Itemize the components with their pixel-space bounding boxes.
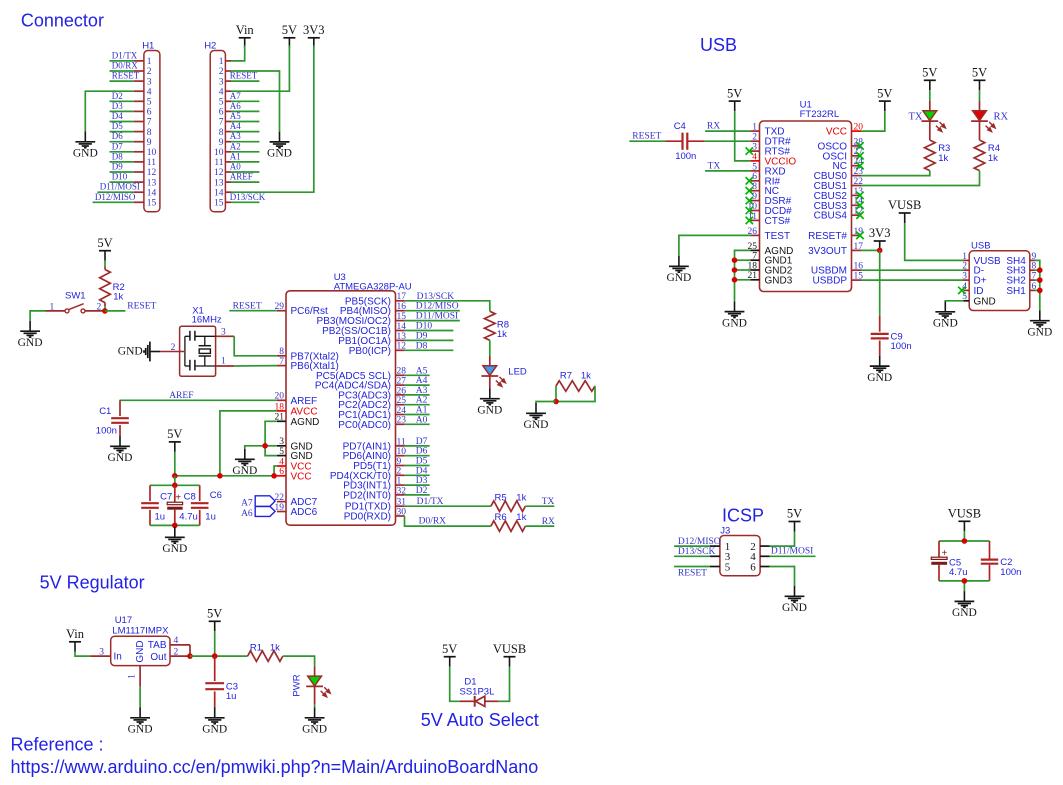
svg-text:GND: GND	[477, 404, 502, 416]
svg-text:H1: H1	[142, 41, 154, 52]
power 5V at U1 VCC	[877, 86, 892, 111]
wire U1 AGND GND1 GND2 GND3 to ground	[735, 250, 751, 301]
svg-text:VUSB: VUSB	[888, 198, 921, 212]
svg-text:D11/MOSI: D11/MOSI	[100, 182, 140, 192]
power 5V at regulator output	[207, 607, 222, 632]
wire net RESET to C4	[629, 140, 665, 142]
svg-text:13: 13	[147, 178, 157, 188]
net label TX at R5	[542, 497, 555, 507]
junction cap top rail	[172, 483, 178, 489]
U1 pin 7 GND1	[750, 252, 792, 267]
wire USB shield pins to ground	[1035, 260, 1040, 310]
wire 5V to TX LED	[929, 90, 931, 101]
svg-text:5V Auto Select: 5V Auto Select	[421, 710, 539, 730]
svg-text:H2: H2	[204, 41, 216, 52]
wire net D12/MISO from U3 pin 16	[405, 310, 460, 312]
wire U1 3V3OUT to C9	[861, 249, 880, 251]
U17 pin 4 TAB	[170, 636, 190, 656]
junction 5V rail at AVCC branch	[217, 473, 223, 479]
U3 pin 16 PB4(MISO)	[340, 302, 406, 317]
svg-text:RESET: RESET	[233, 301, 262, 311]
svg-text:6: 6	[750, 561, 756, 573]
ground GND at C3	[202, 708, 227, 736]
svg-text:A2: A2	[416, 396, 428, 406]
wire net A1 at H2 pin 11	[231, 161, 259, 163]
H1 pin 6	[134, 108, 152, 118]
U1 pin 2 DTR#	[750, 133, 791, 148]
H1 pin 8	[134, 128, 152, 138]
svg-text:5V: 5V	[442, 642, 457, 656]
net label D1/TX	[112, 50, 138, 60]
U1 pin 10 DCD#	[746, 202, 793, 217]
wire net D4 at H1 pin 7	[110, 121, 134, 123]
wire net D4 from U3 pin 2	[405, 474, 430, 476]
svg-text:RESET: RESET	[112, 71, 140, 81]
connector USB	[969, 241, 1030, 311]
wire net AREF from U3 pin 20	[120, 399, 277, 401]
svg-text:GND: GND	[974, 296, 996, 307]
svg-text:USB: USB	[971, 241, 991, 252]
U1 pin 19 RESET#	[808, 227, 864, 242]
svg-text:C6: C6	[210, 490, 222, 501]
svg-text:2: 2	[397, 467, 402, 477]
svg-text:RESET: RESET	[230, 71, 258, 81]
svg-text:7: 7	[279, 357, 284, 367]
wire net D10 from U3 pin 14	[405, 330, 454, 332]
wire Vin to H2 pin 1	[231, 46, 245, 61]
svg-text:5V: 5V	[167, 427, 182, 441]
junction C5 C2 bottom rail	[962, 578, 968, 584]
wire TX LED to R3	[929, 121, 931, 140]
U3 pin 21 AGND	[275, 413, 320, 428]
svg-text:D13/SCK: D13/SCK	[678, 547, 716, 557]
svg-text:3V3: 3V3	[869, 226, 891, 240]
svg-text:R7: R7	[560, 370, 572, 381]
svg-text:ATMEGA328P-AU: ATMEGA328P-AU	[334, 282, 412, 293]
net label D9	[416, 331, 428, 341]
net label AREF	[169, 391, 193, 401]
svg-text:GND: GND	[952, 607, 977, 619]
svg-text:FT232RL: FT232RL	[800, 109, 840, 120]
svg-text:A7: A7	[230, 91, 241, 101]
svg-text:GND: GND	[933, 318, 958, 330]
svg-text:AVCC: AVCC	[291, 406, 318, 417]
wire net A6 at H2 pin 6	[231, 110, 259, 112]
svg-text:11: 11	[397, 437, 406, 447]
svg-text:5V: 5V	[97, 236, 112, 250]
svg-text:J3: J3	[720, 525, 730, 536]
wire 5V rail to U3 VCC	[175, 452, 277, 476]
svg-text:AREF: AREF	[291, 396, 318, 407]
wire net D8 from U3 pin 12	[405, 349, 454, 351]
U3 pin 15 PB3(MOSI/OC2)	[317, 312, 407, 327]
svg-text:D12/MISO: D12/MISO	[95, 192, 136, 202]
svg-text:1: 1	[962, 252, 967, 262]
connector H1	[142, 41, 160, 212]
svg-text:PC0(ADC0): PC0(ADC0)	[338, 420, 391, 431]
wire RX LED to R4	[979, 121, 981, 140]
wire net D0/RX at H1 pin 2	[110, 70, 134, 72]
svg-text:RESET: RESET	[632, 132, 661, 142]
svg-text:1u: 1u	[226, 691, 237, 702]
wire net D1/TX at H1 pin 1	[110, 60, 134, 62]
connector H2	[204, 41, 225, 212]
svg-text:4: 4	[752, 152, 757, 162]
LED PWR (green)	[292, 666, 331, 697]
section title 5V Auto Select	[421, 710, 539, 730]
net label A0	[416, 415, 428, 425]
net label D12/MISO at J3	[678, 537, 721, 547]
svg-text:TX: TX	[542, 497, 555, 507]
junction U1 GND2	[732, 267, 738, 273]
svg-text:1k: 1k	[516, 492, 526, 503]
X1 pin 2 lead	[160, 351, 185, 353]
H2 pin 11	[214, 158, 231, 168]
wire U1 TEST to ground	[679, 235, 751, 256]
svg-text:C1: C1	[99, 406, 111, 417]
net label RESET	[112, 71, 140, 81]
U3 pin 25 PC2(ADC2)	[338, 396, 406, 411]
svg-text:D6: D6	[112, 131, 123, 141]
H2 pin 8	[219, 128, 231, 138]
junction U1 GND3	[732, 277, 738, 283]
wire net RESET at R2	[105, 310, 126, 312]
svg-text:1: 1	[128, 674, 138, 679]
svg-text:Connector: Connector	[21, 10, 104, 30]
svg-text:C4: C4	[674, 121, 686, 132]
junction 5V rail at 5V symbol	[172, 473, 178, 479]
svg-text:D2: D2	[112, 91, 123, 101]
svg-text:C7: C7	[160, 492, 172, 503]
wire R1 to PWR LED	[283, 656, 315, 666]
net label A5	[230, 111, 241, 121]
wire 5V to output node	[214, 631, 216, 656]
svg-text:SS1P3L: SS1P3L	[460, 687, 495, 698]
U3 pin 3 GND	[277, 437, 313, 452]
svg-text:3: 3	[279, 437, 284, 447]
svg-text:1k: 1k	[581, 370, 591, 381]
svg-text:3V3: 3V3	[303, 23, 325, 37]
svg-text:27: 27	[854, 147, 864, 157]
net label A1	[416, 406, 428, 416]
wire X1 pin 3 to U3 PB7	[234, 336, 277, 356]
USB pin 7 SH2	[1006, 272, 1036, 287]
wire net A4 from U3 pin 27	[405, 384, 430, 386]
power 5V at RX LED	[972, 66, 987, 91]
junction U17 output	[187, 653, 193, 659]
svg-text:13: 13	[214, 178, 224, 188]
H1 pin 2	[134, 67, 152, 77]
net label RX	[707, 122, 720, 132]
U1 pin 14 CBUS3	[814, 197, 864, 212]
resistor R3 1k	[925, 140, 951, 171]
H2 pin 1	[219, 57, 231, 67]
svg-text:2: 2	[147, 67, 152, 77]
wire net A3 from U3 pin 26	[405, 394, 430, 396]
svg-text:TX: TX	[909, 111, 923, 122]
X1 pin 3 lead	[216, 335, 235, 337]
svg-text:D2: D2	[416, 486, 428, 496]
net label A6	[230, 101, 241, 111]
resistor R2	[100, 267, 125, 306]
svg-text:D11/MOSI: D11/MOSI	[771, 547, 813, 557]
svg-text:10: 10	[147, 148, 157, 158]
J3 pin 5	[710, 561, 731, 573]
svg-text:9: 9	[397, 457, 402, 467]
H1 pin 5	[134, 98, 152, 108]
net label AREF	[230, 172, 253, 182]
U1 pin 13 CBUS2	[814, 187, 864, 202]
USB pin 3 D+	[962, 272, 986, 287]
wire net RX to U1 pin 1	[705, 130, 750, 132]
svg-text:5: 5	[279, 447, 284, 457]
net label A5	[416, 366, 428, 376]
U3 pin 30 PD0(RXD)	[344, 507, 406, 522]
wire net D6 from U3 pin 10	[405, 455, 430, 457]
wire VUSB to cap rail	[963, 531, 965, 541]
svg-text:LM1117IMPX: LM1117IMPX	[112, 626, 169, 637]
net label D5	[416, 457, 428, 467]
ground GND at C5 C2	[952, 591, 977, 619]
IC U3 ATMEGA328P-AU	[286, 272, 412, 525]
ground GND at X1	[118, 342, 160, 362]
U1 pin 6 RI#	[746, 172, 781, 187]
U17 pin 2 Out	[170, 647, 190, 657]
capacitor C7 1u	[141, 485, 172, 525]
svg-text:30: 30	[397, 507, 407, 517]
svg-text:3: 3	[147, 77, 152, 87]
wire net D0/RX from U3 pin 30	[405, 516, 491, 526]
svg-text:24: 24	[854, 157, 864, 167]
H1 pin 4	[134, 87, 152, 97]
wire X1 pin 1 to U3 PB6	[234, 365, 277, 367]
wire net TX to U1 pin 5	[705, 170, 750, 172]
resistor R6 1k	[491, 512, 527, 531]
wire H1 pin 4 to ground	[85, 91, 133, 131]
svg-text:A1: A1	[416, 406, 428, 416]
svg-text:ID: ID	[974, 286, 984, 297]
wire net D6 at H1 pin 9	[110, 141, 134, 143]
svg-text:A1: A1	[230, 151, 241, 161]
svg-text:4: 4	[174, 636, 179, 646]
wire U17 out to R1	[190, 655, 248, 657]
svg-text:D13/SCK: D13/SCK	[417, 292, 455, 302]
svg-text:GND: GND	[108, 452, 133, 464]
svg-text:5: 5	[752, 162, 757, 172]
svg-text:5V Regulator: 5V Regulator	[40, 573, 145, 593]
svg-text:1: 1	[50, 302, 55, 312]
svg-text:22: 22	[275, 493, 285, 503]
svg-text:9: 9	[219, 138, 224, 148]
H1 pin 3	[134, 77, 152, 87]
U3 pin 24 PC1(ADC1)	[338, 406, 406, 421]
svg-text:ICSP: ICSP	[722, 506, 764, 526]
U3 pin 11 PD7(AIN1)	[343, 437, 406, 452]
svg-text:14: 14	[147, 188, 157, 198]
svg-text:D5: D5	[416, 457, 428, 467]
U1 pin 4 VCCIO	[750, 152, 796, 167]
svg-text:7: 7	[147, 118, 152, 128]
net label RESET at C4	[632, 132, 661, 142]
J3 pin 4	[750, 551, 769, 563]
wire H2 pin 2 to ground	[231, 71, 280, 132]
wire net D12/MISO to J3 pin 1	[674, 545, 710, 547]
U3 pin 32 PD2(INT0)	[343, 486, 406, 501]
section title ICSP	[722, 506, 764, 526]
U1 pin 27 OSCI	[823, 147, 864, 162]
svg-text:A2: A2	[230, 141, 241, 151]
H2 pin 12	[214, 168, 231, 178]
power 5V at U3	[167, 427, 182, 452]
wire J3 pin 6 to ground	[770, 567, 795, 587]
svg-text:RX: RX	[707, 122, 720, 132]
resistor R8 1k	[485, 311, 510, 340]
svg-text:8: 8	[219, 128, 224, 138]
svg-text:5V: 5V	[727, 86, 742, 100]
U3 pin 5 GND	[277, 447, 313, 462]
H1 pin 9	[134, 138, 152, 148]
wire net A4 at H2 pin 8	[231, 131, 259, 133]
wire R4 to U1 CBUS1	[861, 171, 980, 186]
svg-text:D10: D10	[416, 322, 433, 332]
U1 pin 12 CBUS4	[814, 207, 864, 222]
svg-text:GND: GND	[18, 337, 43, 349]
capacitor C3 1u	[205, 656, 238, 707]
junction 3V3OUT node	[877, 248, 883, 254]
svg-text:D1/TX: D1/TX	[417, 497, 444, 507]
svg-text:PC6/Rst: PC6/Rst	[291, 306, 328, 317]
wire R7 node to ground	[536, 402, 556, 404]
U1 pin 15 USBDP	[813, 272, 864, 287]
svg-text:1: 1	[147, 57, 152, 67]
U1 pin 23 CBUS0	[814, 167, 864, 182]
junction 5V rail at VCC branch	[271, 473, 277, 479]
net label D0/RX	[112, 61, 139, 71]
svg-text:D3: D3	[416, 476, 428, 486]
wire net D5 from U3 pin 9	[405, 465, 430, 467]
svg-text:11: 11	[147, 158, 156, 168]
U1 pin 16 USBDM	[811, 262, 863, 277]
wire 3V3 to H2 pin 14	[231, 46, 314, 193]
resistor R1 1k	[248, 643, 283, 662]
svg-text:GND: GND	[302, 724, 327, 736]
junction U1 GND1	[732, 257, 738, 263]
H2 pin 3	[219, 77, 231, 87]
wire net RESET at H2 pin 3	[231, 80, 259, 82]
U3 pin 17 PB5(SCK)	[345, 292, 406, 307]
wire net D3 from U3 pin 1	[405, 484, 430, 486]
section title Connector	[21, 10, 104, 30]
U1 pin 25 AGND	[748, 242, 794, 257]
svg-text:8: 8	[147, 128, 152, 138]
net label D10	[416, 322, 433, 332]
net label A1	[230, 151, 241, 161]
svg-text:CBUS4: CBUS4	[814, 211, 848, 222]
svg-text:D0/RX: D0/RX	[112, 61, 139, 71]
wire net RESET to J3 pin 5	[674, 566, 710, 568]
wire net A0 from U3 pin 23	[405, 423, 430, 425]
ground GND at C1	[108, 436, 133, 464]
H1 pin 11	[134, 158, 156, 168]
wire 5V to U1 pin 4 VCCIO	[735, 111, 751, 161]
svg-text:AREF: AREF	[230, 172, 253, 182]
H2 pin 6	[219, 108, 231, 118]
net label A7	[230, 91, 241, 101]
USB pin 4 ID	[962, 282, 983, 297]
ground GND at C9	[867, 356, 892, 384]
diode D1 SS1P3L	[460, 677, 499, 707]
U1 pin 11 CTS#	[746, 212, 791, 227]
power 5V at R2	[97, 236, 112, 261]
wire VUSB to USB pin 1	[905, 223, 964, 260]
U3 pin 8 PB7(Xtal2)	[277, 347, 339, 362]
ground GND at LED	[477, 388, 502, 416]
wire net D2 at H1 pin 5	[110, 100, 134, 102]
svg-text:14: 14	[214, 188, 224, 198]
wire SW1 to ground	[30, 311, 45, 321]
svg-text:8: 8	[279, 347, 284, 357]
svg-text:RX: RX	[994, 111, 1009, 122]
H2 pin 15	[214, 199, 231, 209]
junction USB SH2	[1037, 277, 1043, 283]
U3 pin 23 PC0(ADC0)	[338, 416, 406, 431]
wire C5 C2 bottom rail	[939, 581, 990, 591]
svg-text:2: 2	[174, 647, 179, 657]
ground GND at PWR LED	[302, 708, 327, 736]
ground GND at J3	[782, 586, 807, 614]
U3 pin 12 PB0(ICP)	[349, 342, 406, 357]
svg-text:1u: 1u	[205, 512, 216, 523]
svg-text:PD2(INT0): PD2(INT0)	[343, 490, 391, 501]
net label D8	[416, 341, 428, 351]
svg-text:GND: GND	[1027, 326, 1052, 338]
svg-text:GND: GND	[267, 148, 292, 160]
svg-text:100n: 100n	[675, 151, 696, 162]
U3 pin 13 PB1(OC1A)	[338, 332, 406, 347]
resistor R4 1k	[974, 140, 1000, 171]
svg-text:15: 15	[214, 199, 224, 209]
net label A4	[416, 376, 428, 386]
svg-text:4: 4	[279, 457, 284, 467]
net label A0	[230, 162, 241, 172]
svg-text:GND: GND	[666, 272, 691, 284]
wire net D1/TX from U3 pin 31	[405, 505, 491, 507]
svg-text:1k: 1k	[988, 153, 998, 164]
net label D13/SCK	[230, 192, 266, 202]
svg-text:D9: D9	[416, 331, 428, 341]
wire net D11/MOSI at H1 pin 14	[97, 191, 133, 193]
svg-text:D11/MOSI: D11/MOSI	[416, 312, 458, 322]
U3 pin 31 PD1(TXD)	[345, 498, 406, 513]
svg-text:A7: A7	[241, 498, 253, 508]
U1 pin 22 CBUS1	[814, 177, 864, 192]
wire 5V to H2 pin 4	[231, 46, 289, 92]
svg-text:SW1: SW1	[65, 291, 86, 302]
junction cap bottom rail	[172, 523, 178, 529]
svg-text:4.7u: 4.7u	[179, 512, 198, 523]
svg-text:2: 2	[962, 262, 967, 272]
H2 pin 13	[214, 178, 231, 188]
U1 pin 21 GND3	[748, 271, 793, 286]
hierarchical label A6 at U3 ADC6	[241, 506, 275, 519]
svg-text:3: 3	[99, 647, 104, 657]
net label D6	[112, 131, 123, 141]
capacitor C9 100n	[871, 316, 912, 356]
junction regulator 5V node	[212, 653, 218, 659]
svg-text:7: 7	[219, 118, 224, 128]
svg-text:1: 1	[219, 57, 224, 67]
wire 5V to R2	[104, 261, 106, 267]
